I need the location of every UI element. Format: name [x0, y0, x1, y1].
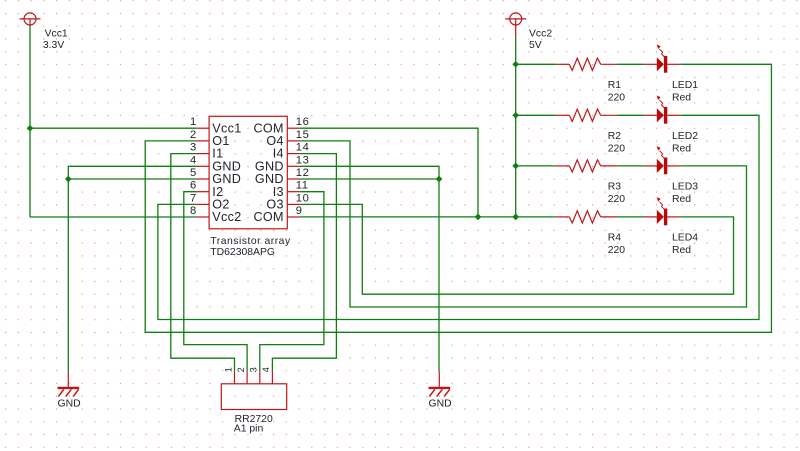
wire pin13 GND to right gnd rail	[300, 166, 439, 371]
resistor R3	[556, 160, 617, 172]
wire R1 to LED1	[618, 63, 645, 65]
svg-text:TD62308APG: TD62308APG	[210, 247, 275, 258]
IC pin 12 stub	[287, 178, 300, 180]
svg-text:LED1: LED1	[672, 80, 698, 91]
svg-text:LED2: LED2	[672, 131, 698, 142]
connector pin 2 stub	[246, 371, 248, 384]
connector pin 3 stub	[259, 371, 261, 384]
svg-text:3: 3	[249, 367, 259, 372]
connector pin 4 stub	[271, 371, 273, 384]
svg-text:16: 16	[296, 116, 310, 128]
junction bus row3	[512, 163, 519, 170]
svg-text:A1 pin: A1 pin	[234, 423, 264, 434]
svg-text:2: 2	[236, 367, 246, 372]
wire pin12 GND to right gnd rail	[300, 178, 439, 180]
svg-text:7: 7	[190, 192, 196, 204]
svg-text:2: 2	[190, 129, 196, 141]
svg-text:Red: Red	[672, 245, 691, 256]
svg-text:R2: R2	[608, 131, 622, 142]
svg-text:15: 15	[296, 129, 310, 141]
svg-text:220: 220	[608, 194, 626, 205]
wire R2 to LED2	[618, 114, 645, 116]
IC pin 16 stub	[287, 127, 300, 129]
junction COM row4	[475, 214, 482, 221]
svg-text:3: 3	[190, 142, 196, 154]
wire R3 to LED3	[618, 165, 645, 167]
svg-text:Red: Red	[672, 92, 691, 103]
IC pin 9 stub	[287, 216, 300, 218]
IC pin 4 stub	[196, 165, 209, 167]
svg-text:R3: R3	[608, 182, 622, 193]
connector pin 1 stub	[234, 371, 236, 384]
wire I3 pin11 to connector pin 3	[260, 192, 324, 372]
svg-text:8: 8	[190, 205, 196, 217]
svg-text:Transistor array: Transistor array	[210, 236, 291, 247]
svg-text:220: 220	[608, 143, 626, 154]
svg-text:220: 220	[608, 92, 626, 103]
IC pin 2 stub	[196, 140, 209, 142]
junction right gnd	[436, 176, 443, 183]
junction bus row2	[512, 112, 519, 119]
IC pin 8 stub	[196, 216, 209, 218]
svg-text:5: 5	[190, 167, 196, 179]
wire pin5 GND to left gnd rail	[68, 178, 196, 180]
power symbol Vcc1	[20, 13, 41, 25]
IC pin 6 stub	[196, 191, 209, 193]
svg-text:COM: COM	[254, 210, 284, 224]
svg-text:Vcc2: Vcc2	[212, 210, 241, 224]
IC pin 5 stub	[196, 178, 209, 180]
resistor R2	[556, 109, 617, 121]
svg-text:10: 10	[296, 192, 310, 204]
svg-text:220: 220	[608, 245, 626, 256]
wire Vcc1 to pin 1	[30, 127, 196, 129]
LED4	[644, 197, 681, 225]
svg-text:9: 9	[296, 205, 303, 217]
LED1	[644, 45, 681, 73]
resistor R4	[556, 211, 617, 223]
svg-text:Vcc2: Vcc2	[529, 28, 552, 39]
wire Vcc1 to pin 8	[30, 216, 196, 218]
svg-text:4: 4	[261, 367, 271, 372]
junction left gnd	[65, 176, 72, 183]
svg-text:LED4: LED4	[672, 233, 698, 244]
svg-text:11: 11	[296, 180, 309, 192]
wire I2 pin6 to connector pin 2	[184, 192, 247, 372]
wire O2 pin7 to LED2 loop	[158, 115, 759, 319]
IC pin 11 stub	[287, 191, 300, 193]
svg-text:GND: GND	[58, 399, 81, 410]
wire bus to R3	[516, 165, 557, 167]
ground symbol	[58, 371, 80, 396]
connector J1 RR2720 box	[221, 384, 286, 410]
svg-text:13: 13	[296, 154, 310, 166]
svg-text:1: 1	[190, 116, 196, 128]
IC pin 7 stub	[196, 203, 209, 205]
IC pin 1 stub	[196, 127, 209, 129]
svg-text:1: 1	[223, 367, 233, 372]
wire O4 pin15 to LED3 loop	[300, 141, 747, 307]
svg-text:3.3V: 3.3V	[43, 40, 64, 51]
wire I1 pin3 to connector pin 1	[171, 154, 235, 372]
wire I4 pin14 to connector pin 4	[272, 154, 336, 372]
IC U1 TD62308APG box	[209, 116, 287, 229]
svg-text:Red: Red	[672, 143, 691, 154]
wire Vcc1 rail down	[29, 25, 31, 217]
wire O1 pin2 to LED1 loop	[145, 64, 771, 332]
IC pin 14 stub	[287, 153, 300, 155]
wire COM pin16 down to row4	[300, 128, 478, 217]
svg-text:6: 6	[190, 180, 196, 192]
wire O3 pin10 to LED4 loop	[300, 204, 734, 294]
LED2	[644, 96, 681, 124]
svg-text:Vcc1: Vcc1	[45, 28, 68, 39]
IC pin 3 stub	[196, 153, 209, 155]
wire R4 to LED4	[618, 216, 645, 218]
LED3	[644, 146, 681, 174]
svg-text:4: 4	[190, 154, 196, 166]
svg-text:5V: 5V	[529, 40, 542, 51]
svg-text:12: 12	[296, 167, 310, 179]
svg-text:GND: GND	[429, 399, 452, 410]
IC pin 10 stub	[287, 203, 300, 205]
junction Vcc1/pin1	[27, 125, 34, 132]
svg-text:R4: R4	[608, 233, 622, 244]
wire bus to R2	[516, 114, 557, 116]
svg-text:LED3: LED3	[672, 182, 698, 193]
IC pin 15 stub	[287, 140, 300, 142]
svg-text:Red: Red	[672, 194, 691, 205]
IC pin 13 stub	[287, 165, 300, 167]
wire Vcc2 bus down	[515, 38, 517, 217]
svg-text:14: 14	[296, 142, 310, 154]
wire COM pin9 / row4 to R4	[300, 216, 556, 218]
power symbol Vcc2	[505, 13, 526, 38]
resistor R1	[556, 58, 617, 70]
ground symbol	[429, 371, 451, 396]
wire pin4 GND to left gnd rail	[68, 166, 196, 371]
junction bus row1	[512, 61, 519, 68]
wire bus to R1	[516, 63, 557, 65]
svg-text:R1: R1	[608, 80, 622, 91]
junction bus row4	[512, 214, 519, 221]
